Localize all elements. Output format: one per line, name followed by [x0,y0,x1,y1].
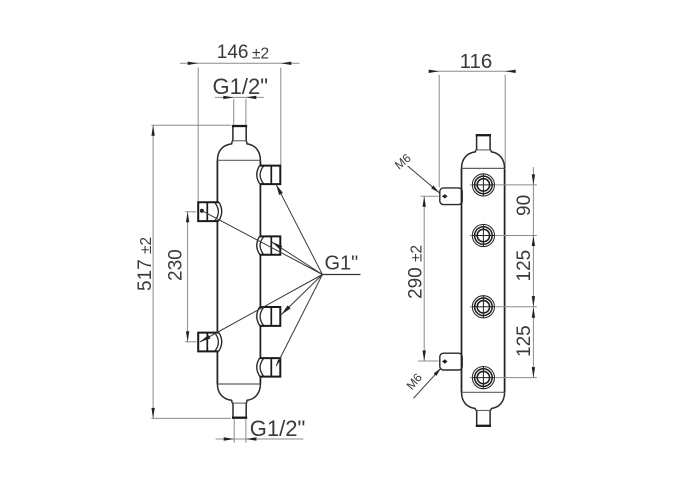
svg-text:G1": G1" [325,253,359,275]
dimension 517±2 top extension line [151,124,231,126]
dimension 125 text lower (rotated) [514,325,535,357]
dimension 146±2 left extension line [197,68,199,202]
tangent shoulder line bottom [217,383,260,385]
threaded port hole 4 [470,367,537,389]
left side port L1 (G1) [198,202,222,221]
top stub G1/2 [232,126,234,141]
threaded port hole 2 [470,224,537,246]
svg-text:G1/2": G1/2" [250,416,306,441]
tangent shoulder line top [217,159,260,161]
leader to port R1 [276,184,322,274]
bracket hole diamond bottom [442,359,448,363]
bottom dome right view [462,392,476,410]
dimension 125 text upper (rotated) [514,250,535,282]
dimension 290±2 dim line [423,196,425,361]
dimension G1/2 top dim line [215,96,264,98]
dimension G1/2 top extension lines [233,99,235,125]
top dome [217,141,232,160]
leader M6 bottom [414,368,442,399]
svg-text:90: 90 [514,195,535,216]
top stub base line [232,140,247,142]
svg-text:125: 125 [514,250,535,282]
dimension G1/2 bottom dim line [216,438,304,440]
top dome right view [462,150,476,168]
dimension 230 dim line [187,212,189,342]
dimension 517±2 bottom extension line [151,417,231,419]
dimension 116 dim line [432,70,513,72]
dimension 146±2 dim line [180,62,300,64]
leader to port L1 (dot) [202,211,323,275]
dimension 517±2 text (rotated) [135,237,156,291]
dimension 146±2 right extension line [280,68,282,165]
vessel body right edge [259,160,261,384]
dimension chain 90/125/125 dim line [532,167,534,378]
dimension 90 text (rotated) [514,195,535,216]
bottom stub G1/2 [232,403,234,418]
mounting bracket top [440,188,462,205]
leader to port R3 [281,275,322,315]
svg-text:290 ±2: 290 ±2 [406,245,427,299]
dimension 116 extension lines [438,75,440,187]
leader to port L2 [200,275,323,343]
bottom stub base line right view [476,409,491,411]
threaded port hole 1 [470,174,537,196]
leader to port R4 [276,275,322,366]
label M6 bottom (rotated) [404,370,426,392]
svg-text:116: 116 [460,50,493,73]
threaded port hole 3 [470,296,537,318]
svg-text:517 ±2: 517 ±2 [135,237,156,291]
dimension 230 text (rotated) [166,249,187,281]
dimension 290±2 extension lines [421,195,439,197]
left side port L2 (G1) [198,333,222,352]
svg-text:G1/2": G1/2" [213,74,269,99]
dimension G1/2 top arrows [223,96,234,99]
bottom dome [217,384,232,403]
right side port R1 (G1) [257,166,281,185]
label G1 underline [322,274,360,276]
bottom stub right view [476,410,478,426]
dimension 230 extension lines [185,211,196,213]
dimension G1/2 bottom extension lines [233,419,235,443]
tangent shoulder line top [462,167,505,169]
right side port R2 (G1) [257,236,281,254]
vessel body left edge [216,160,218,384]
bottom stub base line [232,402,247,404]
svg-text:146: 146 [217,42,249,63]
top stub right view [476,135,478,150]
right side port R3 (G1) [257,307,281,326]
svg-text:125: 125 [514,325,535,357]
top stub base line right view [476,149,491,151]
tangent shoulder line bottom [462,391,505,393]
vessel body right-view left edge [461,168,463,392]
leader M6 top [408,166,440,193]
svg-text:±2: ±2 [252,46,269,63]
vessel body right-view right edge [504,168,506,392]
label M6 top (rotated) [392,151,414,173]
bracket hole diamond top [442,194,448,198]
svg-text:230: 230 [166,249,187,281]
leader to port R2 [272,242,323,275]
right side port R4 (G1) [257,358,281,377]
dimension 290±2 text (rotated) [406,245,427,299]
dimension 517±2 dim line [152,125,154,418]
dimension 146±2 arrows [188,62,199,65]
mounting bracket bottom [440,353,462,370]
